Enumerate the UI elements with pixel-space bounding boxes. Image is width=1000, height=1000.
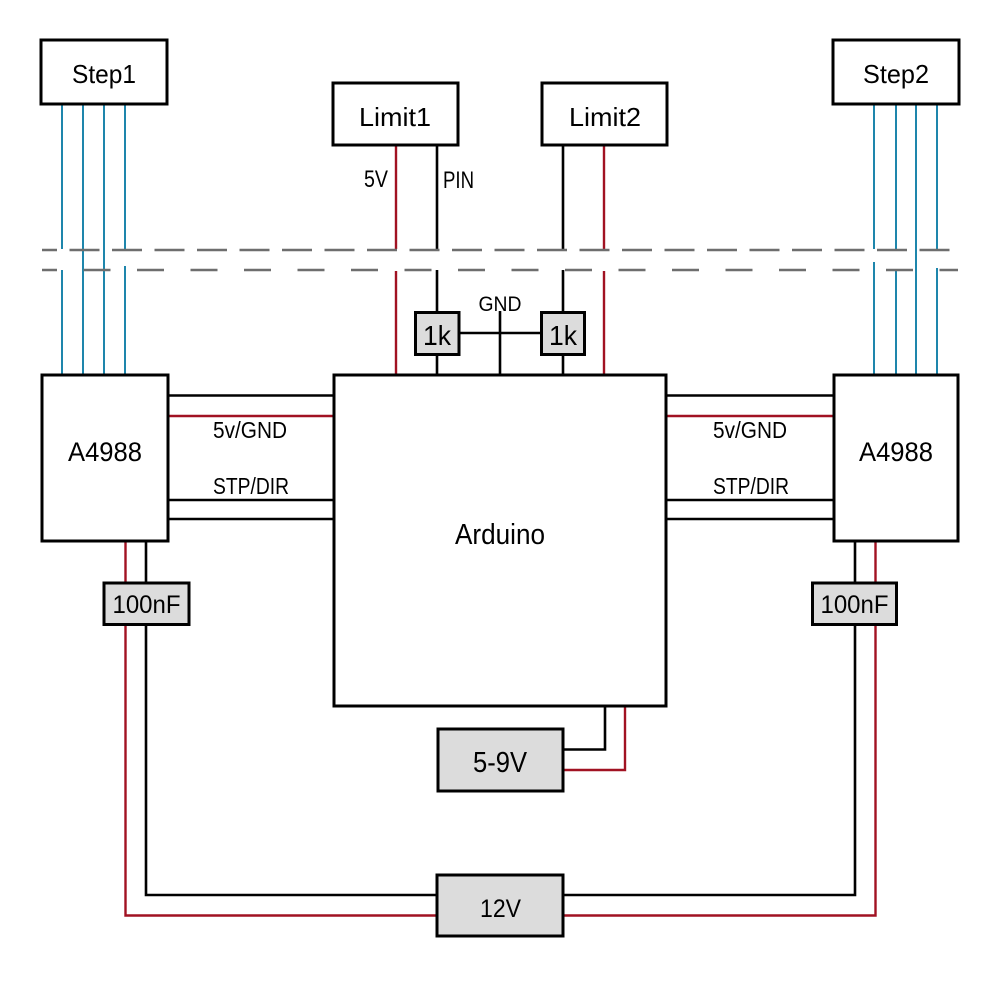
svg-text:Step2: Step2 [863,59,929,89]
supply 5-9V [438,729,563,791]
label 5V [364,166,388,193]
box Limit2 [542,83,667,145]
svg-text:5-9V: 5-9V [473,747,528,779]
label 5v/GND right [713,417,787,443]
label 5v/GND left [213,417,287,443]
svg-text:Step1: Step1 [72,59,136,89]
resistor 1k left [416,313,460,355]
box Step1 [41,40,167,104]
label GND [479,293,522,316]
wire right A4988 black to 12V [563,541,855,895]
svg-text:STP/DIR: STP/DIR [713,473,789,499]
wire A4988-left to Arduino black top [168,394,334,397]
svg-text:A4988: A4988 [68,437,142,467]
svg-text:Limit1: Limit1 [359,102,431,132]
wire limit2 5V red [603,145,605,375]
svg-text:STP/DIR: STP/DIR [213,473,289,499]
box Limit1 [333,83,458,145]
wire stepper2 blue bundle [874,104,937,375]
svg-text:100nF: 100nF [821,591,889,619]
wire limit1 PIN black [436,145,439,375]
svg-text:Arduino: Arduino [455,519,545,551]
svg-text:5V: 5V [364,166,388,193]
dashed divider line lower [42,269,958,272]
wire limit1 5V red [395,145,397,375]
wire Arduino to 5-9V black [563,706,605,750]
label STP/DIR right [713,473,789,499]
resistor 1k right [542,313,585,355]
svg-text:1k: 1k [423,320,452,351]
svg-text:A4988: A4988 [859,437,933,467]
svg-text:Limit2: Limit2 [569,102,641,132]
svg-text:12V: 12V [480,895,521,923]
box Arduino [334,375,666,706]
wire A4988-right to Arduino red 5v [667,415,834,417]
capacitor 100nF left [104,583,189,625]
svg-text:PIN: PIN [443,167,474,194]
wire A4988-left DIR black [168,518,334,521]
wire GND vertical [499,311,502,375]
label STP/DIR left [213,473,289,499]
svg-text:5v/GND: 5v/GND [713,417,787,443]
box A4988 right [834,375,958,541]
dashed divider line upper [42,249,958,252]
label PIN [443,167,474,194]
svg-text:100nF: 100nF [113,591,181,619]
wire Arduino to 5-9V red [563,706,625,770]
wire stepper1 blue bundle [62,104,125,375]
capacitor 100nF right [813,583,897,625]
wire A4988-left STP black [168,499,334,502]
svg-text:1k: 1k [549,320,578,351]
supply 12V [437,875,563,936]
box Step2 [833,40,959,104]
wire 1k link horizontal [459,332,542,335]
wire right A4988 red to 12V [563,541,876,916]
svg-text:5v/GND: 5v/GND [213,417,287,443]
wire left A4988 red to 12V [126,541,438,916]
wire left A4988 black to 12V [146,541,437,895]
wire A4988-right DIR black [667,518,834,521]
svg-text:GND: GND [479,293,522,316]
wire A4988-right to Arduino black top [667,394,834,397]
wire limit2 PIN black [562,145,565,375]
box A4988 left [42,375,168,541]
wire A4988-right STP black [667,499,834,502]
wire A4988-left to Arduino red 5v [168,415,334,417]
